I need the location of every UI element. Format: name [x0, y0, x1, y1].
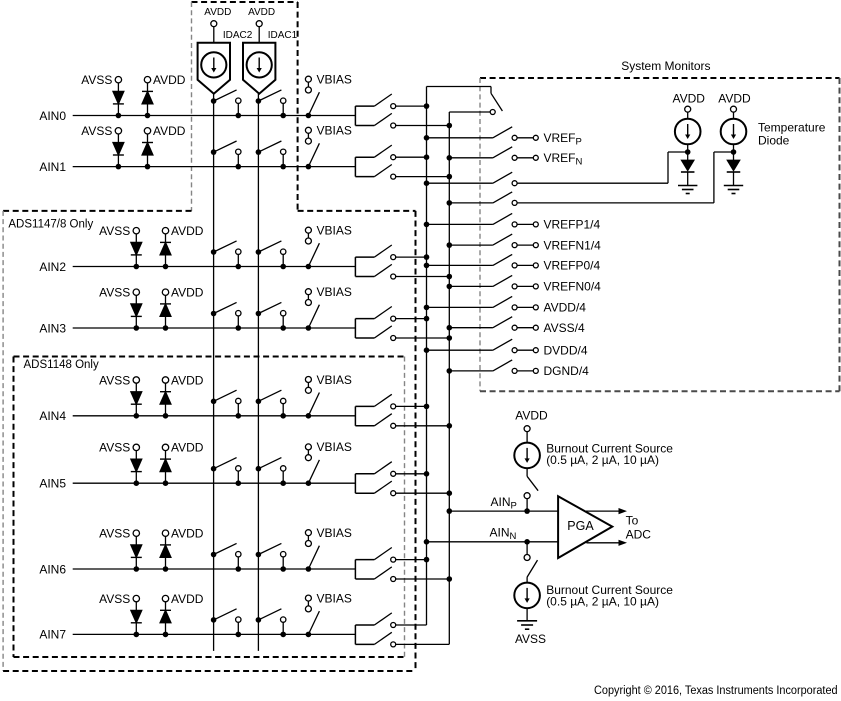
svg-text:AVDD: AVDD — [248, 7, 275, 18]
svg-text:AIN7: AIN7 — [39, 628, 66, 642]
svg-text:AIN6: AIN6 — [39, 562, 66, 576]
svg-text:System Monitors: System Monitors — [621, 59, 710, 73]
svg-text:AIN5: AIN5 — [39, 477, 66, 491]
svg-text:VREFN0/4: VREFN0/4 — [544, 280, 602, 294]
svg-text:Diode: Diode — [758, 133, 790, 147]
svg-text:AVDD: AVDD — [515, 409, 548, 423]
svg-text:AVDD: AVDD — [171, 373, 204, 387]
svg-text:Temperature: Temperature — [758, 121, 826, 135]
svg-text:AVDD: AVDD — [153, 73, 186, 87]
svg-text:AIN3: AIN3 — [39, 321, 66, 335]
svg-text:AVSS: AVSS — [99, 286, 130, 300]
svg-text:AVSS: AVSS — [515, 632, 546, 646]
svg-text:Copyright © 2016, Texas Instru: Copyright © 2016, Texas Instruments Inco… — [594, 685, 838, 697]
svg-text:IDAC1: IDAC1 — [268, 30, 298, 41]
svg-text:VBIAS: VBIAS — [317, 124, 352, 138]
svg-text:VBIAS: VBIAS — [317, 440, 352, 454]
svg-text:AVDD/4: AVDD/4 — [544, 301, 587, 315]
svg-text:AVSS/4: AVSS/4 — [544, 321, 585, 335]
svg-text:IDAC2: IDAC2 — [223, 30, 253, 41]
svg-text:DVDD/4: DVDD/4 — [544, 344, 588, 358]
svg-text:VREFP0/4: VREFP0/4 — [544, 259, 601, 273]
svg-text:DGND/4: DGND/4 — [544, 364, 590, 378]
svg-text:AVDD: AVDD — [171, 527, 204, 541]
svg-text:AVDD: AVDD — [204, 7, 231, 18]
svg-text:VREFN1/4: VREFN1/4 — [544, 238, 602, 252]
svg-text:AVSS: AVSS — [99, 441, 130, 455]
svg-text:AVDD: AVDD — [672, 92, 705, 106]
svg-text:AVDD: AVDD — [171, 286, 204, 300]
svg-text:AVSS: AVSS — [99, 224, 130, 238]
svg-text:To: To — [626, 514, 639, 528]
svg-text:AVSS: AVSS — [99, 592, 130, 606]
svg-text:AVDD: AVDD — [171, 224, 204, 238]
svg-text:AVDD: AVDD — [171, 441, 204, 455]
svg-text:AIN2: AIN2 — [39, 260, 66, 274]
svg-text:ADC: ADC — [626, 528, 652, 542]
svg-text:AIN0: AIN0 — [39, 109, 66, 123]
svg-text:AVDD: AVDD — [153, 124, 186, 138]
svg-text:VBIAS: VBIAS — [317, 73, 352, 87]
svg-text:ADS1147/8 Only: ADS1147/8 Only — [8, 218, 93, 230]
svg-text:AVSS: AVSS — [81, 73, 112, 87]
svg-text:(0.5 µA, 2 µA, 10 µA): (0.5 µA, 2 µA, 10 µA) — [546, 453, 659, 467]
svg-text:ADS1148 Only: ADS1148 Only — [24, 359, 99, 371]
svg-text:AIN4: AIN4 — [39, 409, 66, 423]
svg-text:AVSS: AVSS — [81, 124, 112, 138]
svg-text:VBIAS: VBIAS — [317, 224, 352, 238]
svg-text:VBIAS: VBIAS — [317, 285, 352, 299]
svg-text:VREFP1/4: VREFP1/4 — [544, 218, 601, 232]
svg-text:AIN1: AIN1 — [39, 160, 66, 174]
svg-text:AVSS: AVSS — [99, 527, 130, 541]
svg-text:PGA: PGA — [567, 519, 594, 533]
svg-text:AVSS: AVSS — [99, 373, 130, 387]
svg-text:VBIAS: VBIAS — [317, 591, 352, 605]
svg-text:VBIAS: VBIAS — [317, 526, 352, 540]
svg-text:AVDD: AVDD — [718, 92, 751, 106]
svg-text:VBIAS: VBIAS — [317, 373, 352, 387]
svg-text:AVDD: AVDD — [171, 592, 204, 606]
svg-text:(0.5 µA, 2 µA, 10 µA): (0.5 µA, 2 µA, 10 µA) — [546, 595, 659, 609]
